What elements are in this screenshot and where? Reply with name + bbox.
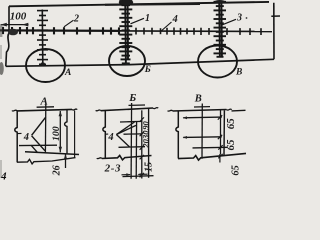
svg-text:65: 65 bbox=[225, 139, 237, 151]
svg-text:30: 30 bbox=[141, 130, 151, 140]
svg-text:А: А bbox=[64, 68, 71, 78]
svg-text:В: В bbox=[235, 68, 242, 78]
svg-text:4: 4 bbox=[107, 132, 113, 143]
svg-text:15: 15 bbox=[144, 162, 155, 172]
svg-text:Б: Б bbox=[144, 65, 151, 75]
svg-text:65: 65 bbox=[225, 118, 237, 130]
svg-text:4: 4 bbox=[23, 132, 29, 143]
svg-text:4: 4 bbox=[172, 14, 178, 25]
svg-text:2-3: 2-3 bbox=[104, 162, 121, 174]
svg-text:100: 100 bbox=[10, 11, 27, 23]
svg-text:65: 65 bbox=[231, 165, 242, 176]
svg-text:26: 26 bbox=[51, 165, 62, 176]
svg-text:А: А bbox=[40, 95, 48, 107]
svg-text:20: 20 bbox=[141, 138, 151, 148]
svg-text:2: 2 bbox=[73, 13, 79, 24]
svg-text:90: 90 bbox=[141, 121, 151, 130]
svg-text:3: 3 bbox=[236, 13, 242, 24]
svg-text:100: 100 bbox=[51, 126, 62, 141]
svg-text:1: 1 bbox=[145, 13, 150, 24]
svg-text:В: В bbox=[194, 94, 202, 105]
svg-text:Б: Б bbox=[128, 92, 136, 104]
